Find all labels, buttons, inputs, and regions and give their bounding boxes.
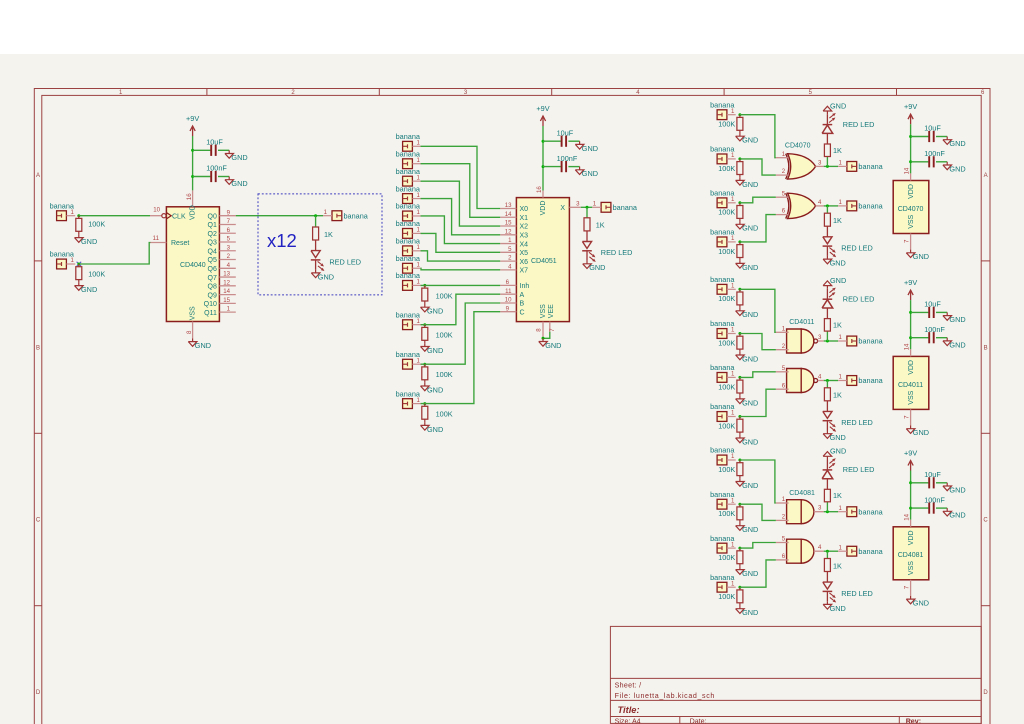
svg-text:X7: X7 [520,268,529,275]
capacitor 10uF (CD4051) [543,140,561,142]
junction [826,204,829,207]
svg-text:GND: GND [742,180,758,189]
ground (CD4040 VSS) [192,338,194,341]
banana J? (Q0 out) [332,211,342,221]
ground [739,523,741,526]
resistor 100K pulldown [739,460,741,463]
wire to X4 [421,216,501,244]
svg-text:GND: GND [742,608,758,617]
svg-text:100K: 100K [718,120,735,129]
LED RED (up) [826,479,828,490]
svg-text:1K: 1K [596,221,605,230]
svg-text:100K: 100K [718,247,735,256]
ground [739,177,741,180]
junction [423,284,426,287]
ground [78,282,80,285]
ground [78,234,80,237]
svg-text:100K: 100K [718,382,735,391]
svg-text:GND: GND [742,525,758,534]
wire in3 to gate2 pinA [740,197,776,203]
svg-text:Q4: Q4 [208,248,217,255]
svg-text:CD4081: CD4081 [789,490,815,497]
svg-text:100K: 100K [718,592,735,601]
wire to X6 [421,251,501,261]
svg-text:VSS: VSS [540,304,547,318]
svg-text:banana: banana [710,100,735,109]
junction [191,149,194,152]
banana J? (CD4011 in4) [717,412,727,422]
svg-text:banana: banana [396,237,421,246]
svg-text:X0: X0 [520,206,529,213]
gate U?B CD4081 [787,539,802,563]
svg-text:banana: banana [396,254,421,263]
svg-text:100K: 100K [718,553,735,562]
svg-text:banana: banana [858,202,883,211]
svg-text:GND: GND [830,276,846,285]
svg-text:A: A [520,292,525,299]
svg-text:CD4051: CD4051 [531,258,557,265]
svg-text:GND: GND [913,252,929,261]
svg-text:100K: 100K [436,410,453,419]
junction [738,157,741,160]
wire +9V to VDD [192,136,194,190]
svg-text:13: 13 [505,202,512,209]
ground [739,133,741,136]
svg-text:x12: x12 [267,230,297,251]
svg-text:VDD: VDD [908,360,915,375]
svg-text:14: 14 [904,343,911,350]
resistor 100K (A pulldown) [424,325,426,328]
wire to A [421,294,501,325]
svg-text:banana: banana [396,310,421,319]
svg-text:A: A [36,173,40,179]
banana J? (X2) [403,176,413,186]
resistor 100K (Inh pulldown) [424,285,426,288]
wire in3 to gate2 pinA [740,372,776,378]
resistor 1K (down) [824,559,830,572]
banana J? (CD4070 in4) [717,237,727,247]
svg-text:B: B [36,345,40,351]
resistor 100K pulldown [739,159,741,162]
junction [909,160,912,163]
svg-text:banana: banana [858,547,883,556]
svg-text:X3: X3 [520,232,529,239]
svg-text:100K: 100K [88,220,105,229]
wire X out [581,206,593,208]
LED RED (down) [826,226,828,237]
banana J? (CLK input) [57,211,67,221]
wire +9V down [910,124,912,173]
svg-text:GND: GND [830,101,846,110]
svg-text:1: 1 [839,544,843,551]
ground [910,596,912,599]
wire out2 to banana [824,380,838,382]
LED RED (4051) [586,231,588,242]
wire to X7 [421,268,501,270]
svg-text:+9V: +9V [536,104,549,113]
junction [77,214,80,217]
pin 7 VSS [910,409,912,425]
banana J? (X1) [403,159,413,169]
ground [424,343,426,346]
junction [826,165,829,168]
resistor 1K (up) [824,144,830,157]
svg-text:GND: GND [830,447,846,456]
svg-text:GND: GND [545,341,561,350]
wire to X5 [421,233,501,252]
svg-text:A: A [984,173,988,179]
svg-text:GND: GND [949,485,965,494]
svg-text:100K: 100K [88,270,105,279]
svg-text:+9V: +9V [904,102,917,111]
pin 4 out [818,380,824,382]
svg-text:banana: banana [396,184,421,193]
wire in3 to gate2 pinA [740,543,776,549]
svg-text:GND: GND [913,428,929,437]
resistor 100K pulldown [739,504,741,507]
svg-text:banana: banana [396,389,421,398]
banana J? (C) [403,399,413,409]
resistor 100K pulldown [739,203,741,206]
wire out2 to banana [824,550,838,552]
wire to X2 [421,181,501,226]
svg-text:GND: GND [81,237,97,246]
pin 11 Reset [150,242,166,244]
svg-text:banana: banana [613,203,638,212]
svg-text:banana: banana [396,132,421,141]
svg-text:RED LED: RED LED [329,257,361,266]
pin 4 out [815,205,823,207]
svg-text:3: 3 [818,505,822,512]
wire junction up [826,331,828,341]
junction [738,376,741,379]
banana J? (B) [403,359,413,369]
ground [739,566,741,569]
svg-text:RED LED: RED LED [843,294,875,303]
gate U?B CD4011 [787,369,802,393]
svg-text:banana: banana [710,534,735,543]
svg-text:VSS: VSS [908,390,915,404]
svg-text:11: 11 [153,235,160,242]
svg-text:banana: banana [344,211,369,220]
svg-text:100nF: 100nF [924,325,945,334]
svg-text:100K: 100K [718,208,735,217]
svg-text:X4: X4 [520,241,529,248]
svg-text:banana: banana [50,201,75,210]
ground [424,422,426,425]
pin 5 [776,196,789,198]
banana J? (CD4070 out1) [847,162,857,172]
ground [739,478,741,481]
pin 6 [776,388,789,390]
IC U? CD4081 power [893,527,929,580]
junction [826,510,829,513]
banana J? (CD4011 in2) [717,329,727,339]
banana J? (CD4081 in4) [717,582,727,592]
pin 8 VSS [542,322,544,339]
svg-text:banana: banana [710,319,735,328]
capacitor 10uF (CD4081) [911,482,929,484]
wire to B [421,303,501,364]
junction [826,550,829,553]
svg-text:banana: banana [710,446,735,455]
svg-text:12: 12 [223,279,230,286]
LED RED (x12) [315,240,317,251]
gate U?A CD4081 [787,500,802,524]
banana J? (CD4070 in2) [717,154,727,164]
svg-text:100nF: 100nF [557,154,578,163]
wire VEE to VSS [543,332,550,339]
svg-text:100K: 100K [718,421,735,430]
svg-text:banana: banana [396,350,421,359]
capacitor 100nF (CD4081) [911,507,929,509]
svg-text:+9V: +9V [904,448,917,457]
banana J? (CD4011 out1) [847,336,857,346]
svg-text:GND: GND [81,285,97,294]
wire out2 to banana [824,205,838,207]
svg-text:100K: 100K [718,509,735,518]
junction [738,332,741,335]
svg-text:VSS: VSS [908,561,915,575]
IC U? CD4011 power [893,356,929,409]
junction [423,363,426,366]
junction [423,402,426,405]
banana J? (X3) [403,194,413,204]
pin 14 VDD [910,173,912,180]
svg-text:10uF: 10uF [924,124,941,133]
junction [738,288,741,291]
pin 3 X output [569,206,580,208]
banana J? (Inh) [403,281,413,291]
svg-text:1K: 1K [833,391,842,400]
resistor 100K pulldown [739,377,741,380]
wire out1 to banana [824,165,838,167]
wire to X1 [421,164,501,218]
svg-text:GND: GND [830,259,846,268]
banana J? (CD4070 out2) [847,201,857,211]
gate U?B CD4070 [788,193,816,218]
svg-text:GND: GND [830,433,846,442]
pin 6 [776,214,789,216]
resistor 100K pulldown [739,115,741,118]
pin 6 Inh [500,284,516,286]
svg-text:banana: banana [858,507,883,516]
svg-text:Q11: Q11 [204,310,217,317]
banana J? (CD4011 in3) [717,373,727,383]
svg-text:Date:: Date: [690,718,707,724]
banana J? (A) [403,320,413,330]
banana J? (X out) [601,202,611,212]
banana J? (X5) [403,229,413,239]
banana J? (X0) [403,141,413,151]
svg-text:CD4081: CD4081 [898,552,924,559]
junction [542,165,545,168]
svg-text:Q8: Q8 [208,284,217,291]
wire junction down [315,216,317,227]
svg-text:banana: banana [710,189,735,198]
svg-text:13: 13 [223,271,230,278]
svg-text:GND: GND [589,263,605,272]
wire to X0 [421,146,501,208]
pin 14 VDD [910,349,912,356]
resistor 100K pulldown [739,548,741,551]
svg-text:Q5: Q5 [208,257,217,264]
svg-text:1: 1 [593,201,597,208]
svg-text:1: 1 [839,199,843,206]
capacitor 100nF (CD4051) [543,166,561,168]
ground (CD4051) [542,338,544,341]
svg-text:VSS: VSS [908,214,915,228]
svg-text:14: 14 [904,513,911,520]
svg-text:GND: GND [427,307,443,316]
svg-text:1K: 1K [833,561,842,570]
wire in4 to gate2 pinB [740,215,776,242]
svg-text:Q10: Q10 [204,301,217,308]
resistor 1K (down) [824,388,830,401]
junction [738,503,741,506]
svg-text:banana: banana [710,490,735,499]
pin 16 VDD [192,190,194,206]
wire in2 to gate1 pinB [740,504,776,520]
wire junction up [826,157,828,167]
IC U? CD4040 [166,207,219,322]
svg-text:banana: banana [858,162,883,171]
svg-text:banana: banana [710,363,735,372]
svg-text:Q3: Q3 [208,240,217,247]
wire banana to Reset [79,243,151,265]
junction [909,507,912,510]
svg-text:16: 16 [186,193,193,200]
svg-text:GND: GND [582,169,598,178]
gate U?A CD4070 [788,154,816,179]
svg-text:C: C [520,309,525,316]
junction [314,214,317,217]
resistor 100K pulldown [739,242,741,245]
resistor 100K pulldown [739,587,741,590]
banana J? (CD4081 in3) [717,543,727,553]
svg-text:GND: GND [742,354,758,363]
pin 1 [776,331,789,333]
pin 6 [776,559,789,561]
svg-text:1K: 1K [833,216,842,225]
banana J? (X4) [403,211,413,221]
svg-text:banana: banana [710,402,735,411]
banana J? (CD4011 in1) [717,284,727,294]
resistor 100K pulldown [739,289,741,292]
resistor 100K (B pulldown) [424,364,426,367]
pin 8 VSS [192,322,194,339]
svg-text:X6: X6 [520,259,529,266]
svg-text:Reset: Reset [171,240,189,247]
LED RED (down) [826,572,828,583]
ground [739,260,741,263]
resistor 100K (Reset pulldown) [78,264,80,267]
wire junction down [826,206,828,213]
pin 3 out [814,511,824,513]
svg-text:GND: GND [949,340,965,349]
resistor 100K (CLK pulldown) [78,216,80,219]
wire +9V down [910,471,912,520]
svg-text:RED LED: RED LED [601,248,633,257]
pin 11 A [500,293,516,295]
svg-text:3: 3 [818,334,822,341]
svg-text:CLK: CLK [172,213,186,220]
svg-text:100K: 100K [718,294,735,303]
wire junction down [826,551,828,558]
wire out1 to banana [824,511,838,513]
wire in4 to gate2 pinB [740,560,776,587]
svg-text:+9V: +9V [186,114,199,123]
svg-text:Size: A4: Size: A4 [615,718,641,724]
svg-text:100K: 100K [718,465,735,474]
svg-text:10uF: 10uF [924,470,941,479]
junction [909,311,912,314]
svg-text:15: 15 [505,220,512,227]
capacitor 100nF (CD4040) [193,176,211,178]
junction [738,459,741,462]
junction [826,340,829,343]
pin 3 out [818,340,824,342]
wire junction up [826,502,828,512]
svg-text:100K: 100K [718,164,735,173]
svg-text:GND: GND [949,164,965,173]
gate U?A CD4011 [787,329,802,353]
svg-text:1K: 1K [324,230,333,239]
junction [738,415,741,418]
svg-text:C: C [36,518,41,524]
svg-text:GND: GND [742,569,758,578]
wire junction down [826,381,828,388]
wire to Inh [421,284,501,286]
wire +9V to VDD [542,126,544,191]
svg-text:100nF: 100nF [206,164,227,173]
svg-text:VDD: VDD [190,205,197,220]
pins Q0-Q11 [219,215,235,217]
svg-text:12: 12 [505,228,512,235]
wire out1 to banana [824,340,838,342]
svg-text:Q0: Q0 [208,213,217,220]
ground [739,396,741,399]
ground [424,304,426,307]
svg-text:14: 14 [904,167,911,174]
svg-text:1K: 1K [833,491,842,500]
svg-text:X1: X1 [520,215,529,222]
svg-text:16: 16 [536,186,543,193]
svg-text:VDD: VDD [908,184,915,199]
svg-text:D: D [36,690,41,696]
pin 2 [776,349,789,351]
pin 1 [776,502,789,504]
svg-text:RED LED: RED LED [841,244,873,253]
svg-text:10: 10 [153,207,160,214]
svg-text:RED LED: RED LED [841,418,873,427]
resistor 100K pulldown [739,417,741,420]
banana J? (CD4081 in2) [717,499,727,509]
svg-text:4: 4 [818,544,822,551]
svg-text:GND: GND [427,346,443,355]
svg-text:4: 4 [818,373,822,380]
svg-text:100K: 100K [436,291,453,300]
junction [738,240,741,243]
capacitor 10uF (CD4040) [193,149,211,151]
banana J? (CD4081 in1) [717,455,727,465]
wire to X3 [421,199,501,235]
repeat box x12 (dashed) [258,194,382,295]
ground [739,606,741,609]
svg-text:11: 11 [505,288,512,295]
wire to C [421,312,501,404]
resistor 1K (4051 LED) [584,218,590,231]
